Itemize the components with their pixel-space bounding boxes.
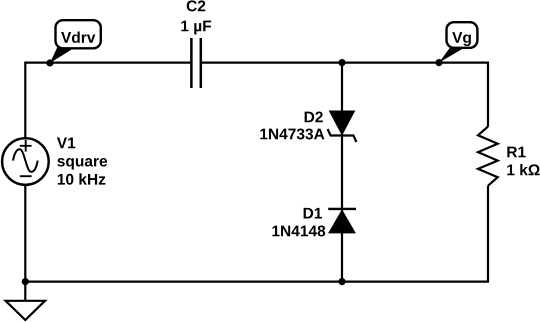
value 1N4733A — [260, 128, 324, 139]
label C2 — [187, 0, 206, 11]
diode D1 — [328, 209, 356, 233]
capacitor C2 — [191, 38, 200, 88]
wire source bottom to ground node — [24, 185, 26, 282]
node Vdrv flag — [50, 20, 101, 63]
label R1 — [507, 147, 525, 158]
junction dot middle bottom — [338, 278, 345, 285]
wire top-right from capacitor to right rail down to resistor top — [201, 63, 488, 127]
ground — [6, 282, 45, 320]
wire bottom rail and right rail up to resistor bottom — [25, 186, 488, 282]
value square — [57, 158, 107, 170]
value 1N4148 — [272, 225, 325, 236]
node Vg flag — [439, 22, 477, 62]
junction dot ground node — [22, 278, 29, 285]
value 1 kΩ — [507, 164, 539, 175]
label D1 — [304, 208, 322, 219]
value 10 kHz — [58, 173, 106, 184]
junction dot middle top — [338, 59, 345, 66]
voltage source V1 — [2, 138, 49, 185]
wire top-left from capacitor to left rail down to source top — [25, 63, 191, 139]
label V1 — [57, 138, 75, 149]
junction dot node Vdrv — [46, 59, 53, 66]
zener diode D2 — [328, 111, 357, 142]
junction dot node Vg — [435, 59, 442, 66]
resistor R1 — [478, 127, 498, 186]
label D2 — [305, 111, 323, 122]
wire middle branch — [341, 63, 343, 282]
value 1 µF — [181, 21, 211, 35]
